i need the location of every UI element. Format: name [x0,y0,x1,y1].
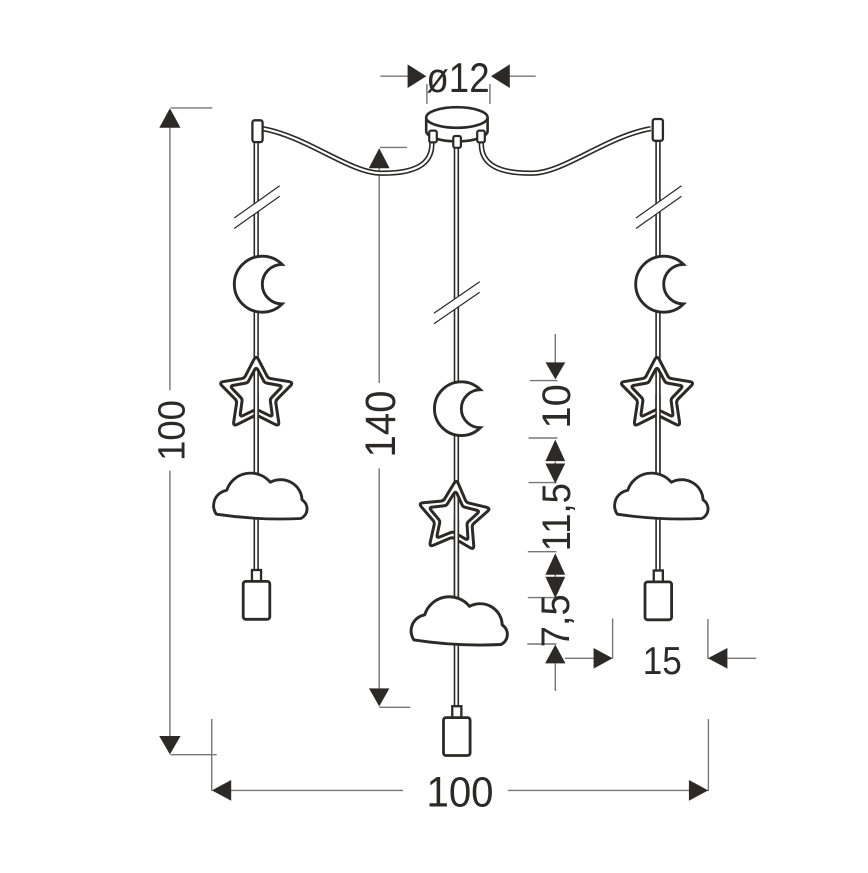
svg-text:7,5: 7,5 [534,594,578,647]
svg-text:100: 100 [426,767,493,816]
svg-text:ø12: ø12 [426,55,489,102]
svg-text:15: 15 [643,638,682,682]
svg-text:11,5: 11,5 [535,483,580,551]
svg-text:140: 140 [356,390,405,457]
svg-text:100: 100 [150,400,193,461]
svg-text:10: 10 [535,384,579,429]
